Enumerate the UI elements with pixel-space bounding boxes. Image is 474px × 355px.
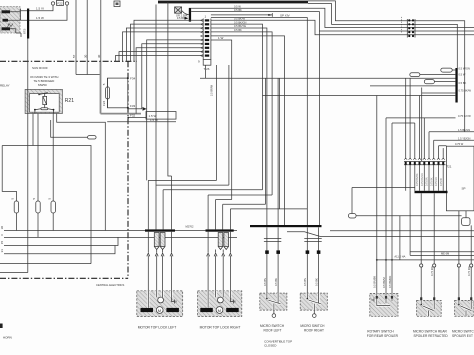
wire bbox=[136, 48, 203, 114]
wire bbox=[410, 254, 474, 256]
rounded box component bbox=[462, 218, 470, 226]
svg-text:0.75 BN: 0.75 BN bbox=[426, 177, 429, 186]
svg-text:0.5 BK: 0.5 BK bbox=[234, 28, 242, 32]
micro switch roof left wires bbox=[263, 227, 282, 303]
svg-text:0.75 RD: 0.75 RD bbox=[435, 177, 438, 186]
motor top lock left box bbox=[137, 291, 183, 317]
bus 31 bbox=[4, 246, 115, 254]
T26 right wire p3 bbox=[211, 28, 267, 226]
svg-text:0.5 BK/YE: 0.5 BK/YE bbox=[234, 24, 246, 28]
ground symbol W12 bbox=[175, 7, 182, 13]
wire bbox=[20, 9, 22, 21]
contact bar 1 bbox=[2, 10, 11, 13]
svg-text:1.5 YE/GN: 1.5 YE/GN bbox=[458, 136, 470, 140]
svg-text:0.75 RD: 0.75 RD bbox=[467, 266, 471, 276]
wire bbox=[268, 14, 272, 16]
busbar right of ground bbox=[189, 8, 191, 22]
svg-text:T 26: T 26 bbox=[204, 67, 210, 71]
wires bus to motor with pin arrows bbox=[147, 232, 173, 307]
svg-text:MW50: MW50 bbox=[38, 83, 47, 87]
lines to rotary bbox=[410, 251, 474, 253]
svg-text:FOR REAR SPOILER: FOR REAR SPOILER bbox=[367, 334, 399, 338]
svg-text:57: 57 bbox=[72, 54, 76, 58]
capsule component c bbox=[424, 80, 466, 86]
svg-text:1.5 W: 1.5 W bbox=[150, 118, 158, 122]
T26 right wire p1 bbox=[211, 20, 474, 35]
svg-text:0.5 BK/RD: 0.5 BK/RD bbox=[388, 276, 392, 288]
svg-text:0.75 RD: 0.75 RD bbox=[430, 266, 434, 276]
svg-text:SUN ROOF: SUN ROOF bbox=[32, 66, 48, 70]
node F34 bbox=[127, 77, 129, 79]
svg-text:X: X bbox=[0, 234, 4, 236]
wire bbox=[230, 208, 307, 210]
T26 left wires staircase bbox=[134, 20, 203, 61]
svg-text:0.5 W: 0.5 W bbox=[234, 4, 241, 8]
bus 30 bbox=[4, 230, 237, 232]
wire bbox=[171, 176, 173, 229]
T21 lower wire labels bbox=[416, 173, 443, 186]
connector T26 bbox=[198, 15, 211, 72]
F24 box bbox=[102, 78, 128, 108]
wire ground bar left bbox=[352, 188, 415, 214]
junction dot bbox=[391, 259, 393, 261]
svg-text:RELAY: RELAY bbox=[0, 84, 10, 88]
wire bbox=[119, 52, 203, 62]
svg-text:2.5 BR/W: 2.5 BR/W bbox=[209, 84, 213, 96]
motor bus left bbox=[145, 229, 175, 231]
plug boxes under left motor bus bbox=[154, 233, 165, 250]
wire bbox=[215, 200, 217, 230]
wire 1.5 W lower bbox=[107, 121, 176, 123]
wire junction 57 bbox=[76, 74, 101, 76]
wire relay pin to bus via 91 bbox=[2, 120, 91, 264]
svg-text:R21: R21 bbox=[65, 98, 74, 104]
T26 pin chevrons bbox=[201, 19, 203, 56]
micro switch roof left box bbox=[260, 293, 287, 317]
svg-text:M: M bbox=[218, 308, 221, 313]
svg-text:HORN: HORN bbox=[3, 336, 12, 340]
svg-text:F32: F32 bbox=[130, 114, 136, 118]
T26 pins bbox=[205, 19, 209, 56]
svg-text:CLOSED: CLOSED bbox=[264, 344, 277, 348]
svg-text:MOTOR TOP LOCK LEFT: MOTOR TOP LOCK LEFT bbox=[138, 326, 177, 330]
svg-text:F34: F34 bbox=[130, 76, 136, 80]
svg-text:0.5 BN: 0.5 BN bbox=[303, 278, 307, 286]
wires y=228 bbox=[330, 230, 474, 232]
wire bbox=[128, 108, 142, 110]
rotary switch wires bbox=[377, 96, 392, 297]
svg-text:0.5 BK/GN: 0.5 BK/GN bbox=[234, 20, 247, 24]
wire bbox=[211, 18, 307, 227]
wires below T21 bbox=[406, 165, 444, 191]
node F32 wire bbox=[127, 117, 129, 119]
fuse F3 bbox=[47, 198, 55, 231]
wire bbox=[392, 123, 415, 159]
svg-text:CENTRAL ELECTRICS: CENTRAL ELECTRICS bbox=[96, 283, 124, 287]
wire bbox=[439, 146, 447, 159]
fuse F22 bbox=[51, 0, 68, 5]
wire bbox=[229, 209, 231, 230]
wire bbox=[409, 78, 411, 159]
svg-text:31: 31 bbox=[0, 249, 4, 253]
svg-text:1.5 BL/GN: 1.5 BL/GN bbox=[458, 128, 470, 132]
wire 1.5 VI to fuse F22 bbox=[21, 5, 54, 11]
capsule on wire bbox=[348, 214, 356, 219]
SP XIV spur bbox=[211, 13, 272, 17]
T26 right wire p4 bbox=[211, 32, 272, 195]
wire step from bus L2 bbox=[308, 4, 457, 68]
gray heavy wire bbox=[101, 113, 142, 115]
svg-text:0.5 BK: 0.5 BK bbox=[459, 81, 467, 85]
control unit outer box bbox=[421, 88, 423, 162]
micro switch rear spoiler retracted bbox=[420, 193, 436, 300]
motor bus right bbox=[206, 229, 234, 231]
svg-text:15: 15 bbox=[0, 241, 4, 245]
wire from bus down bbox=[156, 2, 172, 229]
svg-text:30: 30 bbox=[83, 54, 87, 58]
wire bbox=[222, 204, 224, 229]
wire T26 bottom down bbox=[205, 65, 207, 78]
svg-text:0.75 BN/BK: 0.75 BN/BK bbox=[416, 173, 419, 186]
svg-text:ME 6M: ME 6M bbox=[441, 251, 449, 255]
lower link wire bbox=[0, 263, 91, 265]
right bottom link wires bbox=[287, 232, 474, 237]
micro switch spoiler extended bbox=[457, 211, 473, 300]
svg-text:ROOF LEFT: ROOF LEFT bbox=[264, 328, 282, 332]
wire from ground bar down bbox=[409, 191, 411, 256]
fuse F1 bbox=[11, 198, 19, 231]
heavy gray wire bbox=[100, 61, 102, 113]
wire from busbar right y8 bbox=[191, 8, 474, 27]
staircase to right motor bbox=[208, 194, 272, 196]
svg-text:0.5 BK: 0.5 BK bbox=[234, 8, 242, 12]
control unit SP box bbox=[446, 146, 474, 211]
wire bbox=[223, 203, 266, 205]
wire bbox=[216, 199, 232, 201]
svg-text:F33: F33 bbox=[130, 104, 136, 108]
wire bbox=[162, 190, 164, 230]
wire bbox=[142, 44, 203, 109]
svg-text:0.75 W: 0.75 W bbox=[440, 178, 443, 186]
wire bbox=[318, 31, 320, 226]
svg-text:30: 30 bbox=[0, 226, 4, 230]
wire bbox=[0, 277, 128, 279]
svg-text:0.5 BN/BK: 0.5 BN/BK bbox=[373, 276, 377, 288]
mid vertical bundle bbox=[265, 78, 267, 204]
svg-text:1 W: 1 W bbox=[218, 36, 224, 40]
wire bbox=[422, 92, 456, 94]
central electrics boundary dash-dot bbox=[0, 60, 137, 62]
horn stub bbox=[0, 324, 3, 329]
svg-text:0.5 BK: 0.5 BK bbox=[314, 278, 318, 286]
sun roof note text bbox=[0, 66, 58, 88]
svg-text:1.5 W: 1.5 W bbox=[36, 16, 44, 20]
relay coil zigzag bbox=[8, 24, 14, 28]
svg-text:0.5 BK: 0.5 BK bbox=[274, 278, 278, 286]
relay R21 bbox=[25, 89, 62, 113]
mid horizontal wires bbox=[200, 77, 456, 79]
wire ground to busbar bbox=[182, 11, 189, 15]
svg-text:F22: F22 bbox=[57, 1, 63, 5]
wire bbox=[163, 189, 262, 191]
svg-text:T21: T21 bbox=[446, 164, 452, 168]
svg-text:0.5 BN: 0.5 BN bbox=[263, 278, 267, 286]
wire bbox=[147, 40, 204, 181]
plug boxes under right motor bus bbox=[218, 233, 228, 250]
wire bbox=[405, 78, 407, 159]
micro switch rear spoiler retracted box bbox=[417, 300, 442, 316]
contact bar 2 bbox=[3, 19, 9, 22]
svg-text:F24: F24 bbox=[102, 100, 106, 106]
wire bbox=[123, 32, 204, 61]
node F33 wire with arrow bbox=[127, 107, 129, 109]
inline component top left bbox=[114, 1, 120, 7]
svg-text:SPOILER RETRACTED: SPOILER RETRACTED bbox=[414, 334, 449, 338]
inline connector 4x bbox=[401, 17, 415, 38]
wire bbox=[434, 140, 474, 159]
top bus bar bbox=[158, 1, 308, 4]
svg-text:30: 30 bbox=[97, 54, 101, 58]
bus 15 bbox=[4, 237, 118, 245]
micro switch roof right wires bbox=[303, 227, 322, 303]
wire bbox=[263, 96, 456, 160]
wire right from T26 pin 1W bbox=[211, 40, 232, 200]
micro switch spoiler extended box bbox=[455, 300, 474, 316]
capsule component b bbox=[410, 73, 466, 77]
svg-text:0.75 BN/RD: 0.75 BN/RD bbox=[421, 173, 424, 186]
fuse F2 bbox=[32, 198, 40, 238]
staircase to left motor bbox=[148, 179, 216, 181]
capsule terminal bbox=[88, 136, 97, 139]
wire step from bus L1 bbox=[308, 1, 465, 132]
rotary switch box bbox=[370, 293, 398, 316]
svg-text:0.75 W: 0.75 W bbox=[455, 142, 464, 146]
right connector busbar bbox=[455, 68, 457, 103]
wire 1.5 W to fuse F22 bbox=[21, 5, 68, 20]
wire bbox=[370, 85, 457, 87]
ground busbar below T21 bbox=[415, 191, 448, 193]
wire bbox=[126, 28, 203, 61]
svg-text:0.5 BK: 0.5 BK bbox=[177, 16, 185, 20]
wire relay pin to fuse F2 bbox=[37, 120, 39, 201]
micro switch bus bbox=[250, 225, 322, 227]
wire bbox=[216, 65, 218, 180]
wire bbox=[116, 56, 204, 62]
wire bbox=[228, 65, 230, 185]
horn relay block top-left bbox=[0, 7, 20, 34]
wire bbox=[143, 107, 147, 111]
T26 right wire p5 bbox=[211, 36, 285, 226]
junction dot bbox=[385, 259, 387, 261]
wire from busbar right y11.6 bbox=[191, 12, 474, 31]
capsule 1.5 W bbox=[146, 112, 176, 120]
capsule component a bbox=[441, 67, 470, 73]
svg-text:1.5 VI: 1.5 VI bbox=[36, 7, 44, 11]
junction dot bbox=[376, 259, 378, 261]
svg-text:0.75 BK/W: 0.75 BK/W bbox=[459, 89, 472, 93]
motor right pin arrows and wires bbox=[207, 232, 232, 307]
svg-text:ROOF RIGHT: ROOF RIGHT bbox=[304, 328, 324, 332]
wire bbox=[207, 195, 209, 229]
svg-text:0.75 GY/W: 0.75 GY/W bbox=[458, 114, 471, 118]
svg-text:0.5 BK/VI: 0.5 BK/VI bbox=[382, 277, 386, 288]
wire bbox=[356, 215, 462, 217]
svg-text:0.5 BK/W: 0.5 BK/W bbox=[234, 16, 246, 20]
wire bbox=[429, 132, 474, 159]
wire bbox=[128, 117, 146, 119]
wire bbox=[185, 17, 189, 20]
wire relay pin to fuse F3 bbox=[52, 120, 54, 201]
long vertical wire 57 bbox=[75, 0, 77, 75]
contact bar 3 bbox=[2, 27, 11, 30]
bus X bbox=[4, 236, 237, 238]
lower link wire from busbar bbox=[0, 39, 28, 273]
wire bbox=[277, 78, 279, 226]
svg-text:SP XIV: SP XIV bbox=[280, 13, 290, 17]
relay pins bbox=[33, 114, 57, 121]
wire bbox=[399, 216, 401, 260]
wire colour labels bbox=[234, 4, 247, 32]
wire fuse1 feed bbox=[2, 146, 16, 202]
rotary switch wire labels bbox=[373, 276, 392, 288]
svg-text:SPOILER EXT: SPOILER EXT bbox=[452, 334, 473, 338]
svg-text:0.5 W/GN: 0.5 W/GN bbox=[459, 67, 471, 71]
long vertical wire SO bbox=[86, 0, 88, 75]
svg-text:M2762: M2762 bbox=[186, 225, 194, 229]
connector T21 row bbox=[404, 158, 452, 168]
svg-text:SP: SP bbox=[462, 187, 466, 191]
wire bbox=[465, 211, 467, 218]
long vertical wire SB bbox=[100, 0, 102, 61]
right side label wires bbox=[386, 118, 456, 159]
svg-text:MOTOR TOP LOCK RIGHT: MOTOR TOP LOCK RIGHT bbox=[200, 326, 241, 330]
wire bbox=[131, 24, 204, 61]
wire bbox=[377, 259, 474, 261]
svg-text:0.75 BK: 0.75 BK bbox=[430, 177, 433, 186]
T26 right wire p2 bbox=[211, 24, 263, 190]
svg-text:87S: 87S bbox=[23, 29, 27, 34]
wire relay pin to capsule bbox=[51, 120, 88, 137]
motor top lock right box bbox=[198, 291, 242, 317]
wire bbox=[8, 12, 21, 33]
micro switch roof right box bbox=[300, 293, 327, 317]
wire bbox=[278, 78, 280, 209]
wire bbox=[127, 61, 129, 278]
wire bbox=[442, 148, 444, 159]
busbar 87S bbox=[27, 9, 29, 39]
svg-text:0.5 W: 0.5 W bbox=[459, 73, 466, 77]
wire stub below relay block bbox=[16, 33, 21, 37]
wire relay pin right down bbox=[57, 120, 106, 231]
wire bbox=[147, 180, 149, 229]
wire bbox=[156, 184, 229, 186]
svg-text:M: M bbox=[158, 308, 161, 313]
